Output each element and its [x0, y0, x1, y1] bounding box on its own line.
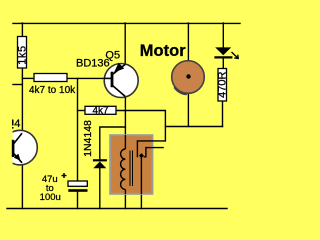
svg-text:4: 4 — [14, 118, 20, 130]
LED arrow — [232, 52, 239, 58]
wire: node B down to capacitor top — [77, 78, 79, 181]
svg-text:1N4148: 1N4148 — [82, 120, 94, 157]
svg-text:4k7: 4k7 — [92, 105, 109, 116]
wire: relay armature to 0V rail — [140, 156, 142, 209]
svg-text:100u: 100u — [40, 192, 61, 203]
wire: diode bottom to 0V rail — [99, 168, 101, 209]
wire: Q5 collector down to relay coil — [124, 96, 126, 149]
wire: R3 right to corner and down — [116, 111, 165, 141]
relay coil — [125, 135, 141, 194]
wire: R2 right to base node B — [67, 77, 109, 79]
wire: relay lower contact stub — [144, 148, 164, 157]
diode D1 1N4148 — [93, 159, 107, 161]
motor M1 — [172, 61, 205, 94]
wire: rail down to LED anode — [222, 23, 224, 47]
svg-text:Motor: Motor — [140, 42, 186, 60]
wire: rail to R1 top — [21, 23, 23, 37]
svg-text:470R: 470R — [217, 71, 229, 97]
transistor Q5 — [104, 64, 138, 98]
LED D2 — [215, 47, 231, 55]
resistor R1 1k5 — [18, 37, 27, 69]
svg-text:1k5: 1k5 — [16, 45, 28, 65]
wire: flyback diode top link — [100, 127, 126, 161]
wire: R1 bottom down to Q4 collector — [21, 68, 23, 132]
resistor R4 470R — [218, 69, 227, 102]
label Q4 (cropped) — [12, 120, 14, 126]
relay RLA1 box — [110, 135, 152, 194]
svg-text:4k7 to 10k: 4k7 to 10k — [29, 85, 76, 96]
wire: node B stub to R3 left — [78, 110, 86, 112]
wire: relay upper contact feed — [137, 141, 165, 157]
wire: Q4 emitter to 0V rail — [21, 163, 23, 208]
relay armature pivot diamond — [139, 153, 144, 158]
wire: motor/LED bottom join — [165, 126, 222, 128]
wire: bottom 0V rail — [7, 208, 227, 210]
wire: coil bottom to 0V rail — [124, 189, 126, 208]
wire: rail down to motor top — [187, 23, 189, 61]
plus sign — [62, 173, 67, 178]
relay core bars — [129, 150, 131, 186]
wire: node A to R2 left — [22, 77, 34, 79]
wire: top positive rail — [13, 22, 240, 24]
wire: LED cathode to R4 top — [222, 57, 224, 68]
relay coil arcs — [121, 149, 126, 189]
wire: stub left at node A — [13, 84, 22, 86]
resistor R2 4k7 to 10k — [34, 74, 67, 82]
resistor R3 4k7 — [85, 106, 116, 114]
wire: motor bottom to join — [187, 94, 189, 127]
svg-text:BD136: BD136 — [76, 58, 110, 70]
wire: R4 bottom down and left to join — [222, 101, 224, 127]
wire: capacitor bottom to 0V rail — [77, 192, 79, 209]
capacitor C1 47u-100u — [68, 181, 87, 186]
wire: rail down to Q5 emitter — [124, 23, 126, 64]
